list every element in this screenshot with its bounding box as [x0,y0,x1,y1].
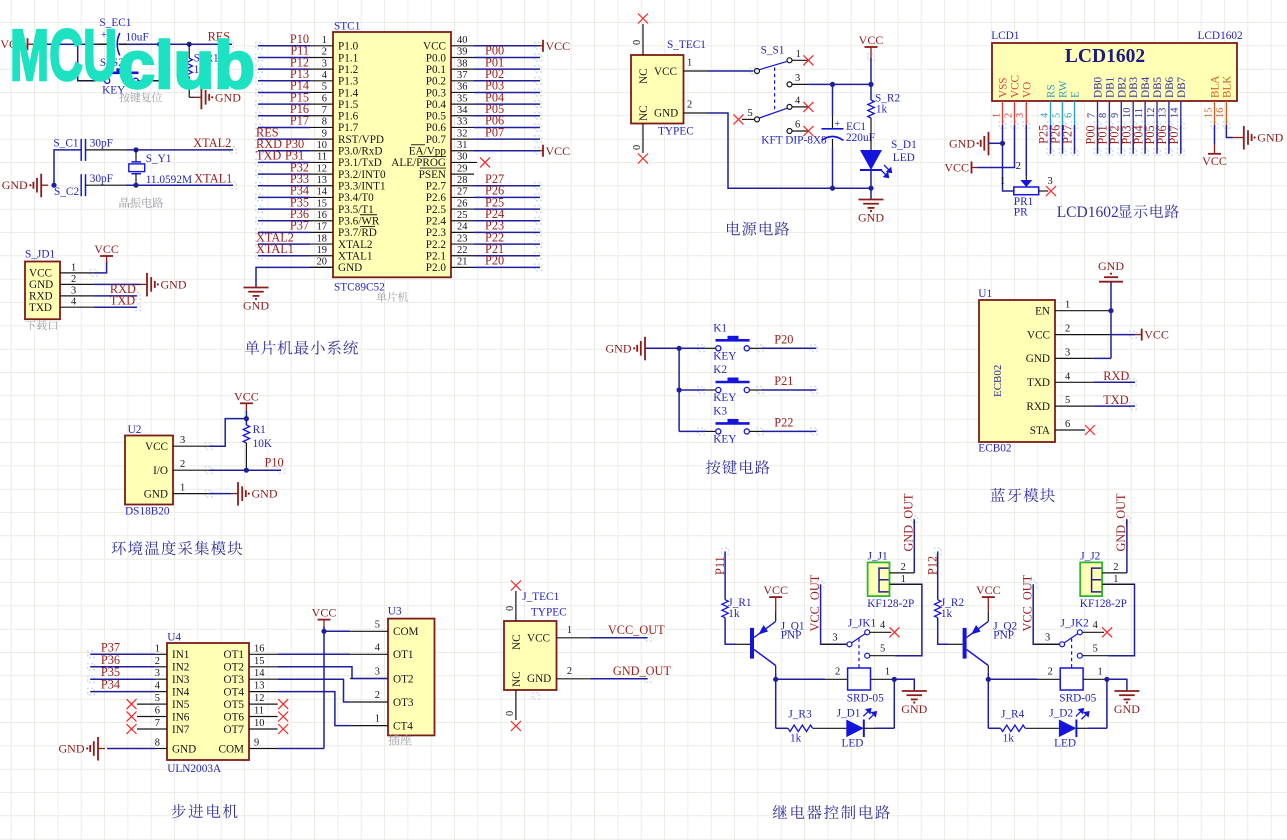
pin 19 STC1 (XTAL1) [310,255,333,257]
pin 13 STC1 (P3.3/INT1) [310,185,333,187]
svg-text:31: 31 [457,140,467,151]
wire [474,243,540,245]
wire [474,150,540,152]
wire P21 [750,389,762,391]
svg-text:J_D1: J_D1 [837,708,861,720]
pin 4 J_JK2 no connect [1082,631,1104,633]
wire P35 [90,678,155,680]
wire [474,56,540,58]
svg-text:VCC: VCC [546,39,571,53]
svg-text:ECB02: ECB02 [978,443,1012,455]
svg-text:30pF: 30pF [90,173,113,185]
svg-text:P1.3: P1.3 [338,76,359,88]
svg-text:DB6: DB6 [1164,76,1176,98]
svg-text:P0.2: P0.2 [426,76,446,88]
svg-text:J_D2: J_D2 [1049,708,1073,720]
svg-text:2: 2 [1048,666,1053,677]
node [892,677,897,682]
svg-text:TYPEC: TYPEC [658,126,694,138]
svg-text:MCU: MCU [10,16,117,96]
svg-text:30pF: 30pF [90,137,113,149]
svg-text:11: 11 [1134,108,1145,118]
svg-text:P0.6: P0.6 [426,122,447,134]
ground (LCD) [989,142,996,144]
pin 27 STC1 (P2.6) [451,196,474,198]
svg-text:P3.6/WR: P3.6/WR [338,216,380,228]
svg-text:VCC: VCC [423,41,446,53]
connector S_JD1 [25,262,60,320]
svg-text:29: 29 [457,163,467,174]
wire [258,231,310,233]
svg-text:LCD1602: LCD1602 [1198,30,1244,42]
svg-text:7: 7 [155,718,160,729]
svg-text:13: 13 [254,681,264,692]
svg-text:P21: P21 [774,374,793,388]
svg-text:VCC: VCC [1202,154,1227,168]
svg-text:P27: P27 [1061,125,1075,144]
svg-text:16: 16 [317,210,327,221]
caption bluetooth module [991,488,1005,502]
svg-text:GND: GND [243,299,269,313]
pin 22 STC1 (P2.1) [451,255,474,257]
svg-text:0: 0 [505,711,516,716]
svg-text:VCC: VCC [763,583,788,597]
svg-text:3: 3 [180,435,185,446]
connector S_TEC1 TYPEC body [631,55,684,124]
pin 1 J_J1 [890,583,922,585]
svg-text:2: 2 [1065,324,1070,335]
svg-text:PR: PR [1014,207,1028,219]
svg-text:33: 33 [457,117,467,128]
wire vertical [678,348,680,431]
svg-text:GND: GND [606,341,632,355]
pin 23 STC1 (P2.2) [451,243,474,245]
wire [258,185,310,187]
svg-text:40: 40 [457,35,467,46]
svg-text:DB3: DB3 [1128,76,1140,98]
wire [323,626,325,631]
pin 5 J_JK1 [870,655,896,657]
svg-text:VCC: VCC [527,633,550,645]
node [1108,308,1113,313]
wire XTAL1 [126,184,233,186]
wire [988,678,1037,680]
svg-text:P3.7/RD: P3.7/RD [338,227,377,239]
svg-text:GND: GND [1026,353,1050,365]
svg-text:10: 10 [317,140,327,151]
wire [808,83,871,85]
ground (ULN2003A) [107,748,155,750]
pushbutton K3 [679,430,705,432]
svg-text:OT3: OT3 [223,674,244,686]
svg-text:1: 1 [687,58,692,69]
wire [137,44,159,81]
svg-text:STA: STA [1030,425,1050,437]
ground (bluetooth) [1099,281,1123,283]
svg-text:SRD-05: SRD-05 [847,693,884,705]
svg-text:8: 8 [322,117,327,128]
svg-text:VCC: VCC [859,33,884,47]
svg-text:NC: NC [511,671,523,687]
pin 24 STC1 (P2.3) [451,231,474,233]
svg-text:37: 37 [457,70,467,81]
svg-text:RXD: RXD [1103,369,1129,383]
pushbutton K1 [679,347,705,349]
svg-text:GND: GND [144,488,168,500]
wire [245,411,247,419]
wire [474,196,540,198]
svg-text:KEY: KEY [713,350,736,362]
svg-text:3: 3 [832,633,837,644]
svg-text:2: 2 [835,666,840,677]
capacitor S_C1 [80,139,82,161]
resistor S_R2 1k [870,84,872,100]
svg-text:39: 39 [457,47,467,58]
svg-text:ALE/PROG: ALE/PROG [391,157,446,169]
svg-text:IN5: IN5 [172,699,190,711]
svg-text:2: 2 [322,47,327,58]
svg-text:TXD: TXD [29,302,52,314]
svg-text:P2.3: P2.3 [426,227,447,239]
svg-text:10: 10 [1122,108,1133,118]
wire OT4 [278,692,351,726]
svg-text:VCC: VCC [145,441,168,453]
wire [474,266,540,268]
svg-text:3: 3 [1015,113,1026,118]
power port VCC (bluetooth) [1135,334,1142,336]
pin 2 S_TEC1 (GND) [684,112,708,114]
caption crystal circuit (gray) [120,198,130,208]
svg-text:LED: LED [842,738,864,750]
ground (STC1) [244,287,269,289]
wire [890,584,922,655]
svg-text:GND: GND [338,262,362,274]
svg-text:DB4: DB4 [1140,76,1152,98]
pin 0 top J_TEC1 [515,591,517,621]
svg-text:P0.0: P0.0 [426,52,447,64]
transistor J_Q1 PNP [775,611,777,622]
svg-text:XTAL1: XTAL1 [338,251,373,263]
no connect OT6 [278,712,288,722]
svg-text:P1.6: P1.6 [338,111,359,123]
svg-text:BLA: BLA [1210,76,1222,98]
svg-text:NC: NC [638,68,650,84]
IC U1 ECB02 body [979,300,1055,442]
svg-text:1: 1 [180,483,185,494]
svg-text:XTAL2: XTAL2 [193,136,231,150]
svg-text:3: 3 [1048,176,1053,187]
wire [78,44,105,81]
svg-text:U1: U1 [978,288,992,300]
wire [258,208,310,210]
ground (crystal) [41,184,48,186]
diode J_D1 LED [846,720,864,738]
svg-text:J_JK1: J_JK1 [848,618,876,630]
svg-text:K3: K3 [713,406,727,418]
svg-text:KF128-2P: KF128-2P [867,598,914,610]
wire P12 [937,551,939,599]
capacitor EC1 220uF [832,84,834,115]
wire [1144,125,1146,154]
IC STC1 STC89C52 body [333,32,451,277]
wire [474,220,540,222]
svg-text:DB2: DB2 [1116,77,1128,98]
wire [209,419,247,447]
pin 2 J_TEC1 GND_OUT [557,678,591,680]
svg-text:STC89C52: STC89C52 [334,282,385,294]
wire [1168,125,1170,154]
svg-text:P22: P22 [774,415,793,429]
no connect IN5 [137,703,155,705]
svg-text:TXD: TXD [110,294,135,308]
svg-text:S_JD1: S_JD1 [25,249,55,261]
svg-text:OT2: OT2 [223,662,244,674]
svg-text:4: 4 [1065,371,1071,382]
wire [258,103,310,105]
svg-text:21: 21 [457,257,467,268]
IC LCD1 LCD1602 body [992,43,1237,101]
svg-text:3: 3 [71,285,76,296]
svg-text:7: 7 [322,105,327,116]
svg-text:RST/VPD: RST/VPD [338,134,384,146]
wire [1110,282,1112,359]
wire [1050,125,1052,154]
pin 0 top S_TEC1 [642,24,644,55]
svg-text:RW: RW [1058,80,1070,98]
svg-text:OT6: OT6 [223,711,244,723]
svg-text:IN1: IN1 [172,649,189,661]
power port VCC (pin31) [540,150,543,152]
wire [1088,727,1107,729]
svg-text:LCD1602: LCD1602 [1065,46,1145,67]
wire [258,173,310,175]
resistor J_R4 1k [1001,725,1026,731]
wire [258,56,310,58]
svg-text:P0.4: P0.4 [426,99,447,111]
wire TXD [1093,405,1135,407]
svg-text:1: 1 [1065,300,1070,311]
svg-text:26: 26 [457,198,467,209]
pin 9 STC1 (RST/VPD) [310,138,333,140]
node [773,677,778,682]
wire [258,126,310,128]
svg-text:GND: GND [901,702,927,716]
ground (S_JD1) [94,283,140,285]
svg-text:TXD: TXD [1027,377,1050,389]
svg-text:15: 15 [317,198,327,209]
pin 2 J_J2 [1102,572,1127,574]
svg-text:VCC: VCC [1144,328,1169,342]
pin 10 STC1 (P3.0/RxD) [310,150,333,152]
svg-text:VCC_OUT: VCC_OUT [608,623,665,637]
wire [1102,584,1134,655]
svg-text:25: 25 [457,210,467,221]
pin 7 STC1 (P1.6) [310,115,333,117]
wire [474,255,540,257]
wire P37 [90,653,155,655]
node (crystal bottom) [133,183,138,188]
wire [707,113,871,188]
node RES junction [157,42,162,47]
diode J_D2 LED [1059,720,1077,738]
svg-text:9: 9 [1110,113,1121,118]
svg-text:4: 4 [322,70,328,81]
svg-text:DB5: DB5 [1152,76,1164,98]
svg-text:XTAL2: XTAL2 [338,239,373,251]
svg-text:STC1: STC1 [334,21,360,33]
pin 36 STC1 (P0.3) [451,91,474,93]
wire [1180,125,1182,154]
svg-text:U4: U4 [167,632,181,644]
svg-text:OT7: OT7 [223,724,244,736]
svg-text:5: 5 [375,619,380,630]
svg-text:1: 1 [901,574,906,585]
svg-text:12: 12 [317,163,327,174]
svg-text:0: 0 [632,145,643,150]
svg-text:28: 28 [457,175,467,186]
svg-text:6: 6 [322,93,327,104]
svg-text:J_R3: J_R3 [788,709,812,721]
svg-text:14: 14 [317,187,328,198]
pin 32 STC1 (P0.7) [451,138,474,140]
svg-text:VCC: VCC [654,66,677,78]
wire [258,243,310,245]
svg-text:GND_OUT: GND_OUT [613,664,672,678]
svg-text:P1.4: P1.4 [338,87,359,99]
svg-text:38: 38 [457,58,467,69]
svg-text:22: 22 [457,245,467,256]
relay coil SRD-05 (2) [1038,678,1061,680]
wire P20 [750,347,762,349]
node [986,677,991,682]
svg-text:PSEN: PSEN [419,169,446,181]
svg-text:S_C2: S_C2 [54,186,79,198]
wire [258,115,310,117]
svg-text:KEY: KEY [713,433,736,445]
wire [1108,125,1110,154]
svg-text:NC: NC [511,634,523,650]
svg-text:P3.0/RxD: P3.0/RxD [338,146,382,158]
svg-text:IN6: IN6 [172,711,190,723]
wire [474,80,540,82]
node [244,468,249,473]
svg-text:VCC: VCC [546,144,571,158]
svg-text:10: 10 [254,718,264,729]
wire [725,618,736,645]
wire [870,58,872,84]
pin 33 STC1 (P0.6) [451,126,474,128]
svg-text:DS18B20: DS18B20 [125,506,170,518]
svg-text:club: club [118,28,255,103]
svg-text:16: 16 [1215,108,1226,118]
svg-text:3: 3 [795,73,800,84]
no connect pin30 [480,157,490,167]
wire [258,255,310,257]
wire P36 [90,666,155,668]
wire [474,103,540,105]
svg-text:I/O: I/O [153,465,168,477]
svg-text:10K: 10K [253,438,273,450]
svg-text:0: 0 [505,606,516,611]
svg-text:S_C1: S_C1 [53,137,78,149]
pin 3 PR1 no connect [1039,190,1049,192]
svg-text:TXD: TXD [256,149,281,163]
wire COM [324,630,350,632]
svg-text:GND: GND [1257,131,1283,145]
svg-text:P3.2/INT0: P3.2/INT0 [338,169,386,181]
wire BLA [1214,125,1216,144]
svg-text:P1.7: P1.7 [338,122,359,134]
svg-text:24: 24 [457,222,468,233]
svg-text:NC: NC [638,105,650,121]
wire VO to PR1 wiper [1025,125,1027,176]
caption temperature module [112,541,126,555]
ground (backlight) [1233,137,1238,139]
pin 1 STC1 (P1.0) [310,45,333,47]
wire [258,161,310,163]
svg-text:J_JK2: J_JK2 [1061,618,1090,630]
resistor J_R2 1k [935,600,941,618]
wire [127,43,232,45]
svg-text:P31: P31 [285,149,304,163]
ground (reset) [189,96,194,98]
power port VCC (pin40) [540,45,543,47]
wire P11 [724,551,726,599]
svg-text:0: 0 [632,40,643,45]
pin 29 STC1 (PSEN) [451,173,474,175]
svg-text:VCC: VCC [976,583,1001,597]
svg-text:2: 2 [180,459,185,470]
wire GND pin20 [310,266,333,268]
pin 38 STC1 (P0.1) [451,68,474,70]
wire [1132,125,1134,154]
svg-text:12: 12 [254,693,264,704]
pin 15 STC1 (P3.5/T1) [310,208,333,210]
wire [474,91,540,93]
power port VCC (backlight) [1208,153,1221,155]
crystal S_Y1 [135,150,137,162]
resistor J_R3 1k [788,725,813,731]
svg-text:P20: P20 [774,332,793,346]
svg-text:DB0: DB0 [1093,76,1105,98]
wire OT1 [278,653,351,655]
svg-text:ECB02: ECB02 [992,365,1004,397]
svg-text:P2.5: P2.5 [426,204,447,216]
caption power circuit [727,222,740,236]
svg-text:1: 1 [567,625,572,636]
pin 3 STC1 (P1.2) [310,68,333,70]
svg-text:5: 5 [1065,395,1070,406]
caption key circuit [706,460,721,474]
ground (power circuit) [870,188,872,199]
wire [54,150,81,185]
capacitor S_C2 [80,174,82,196]
svg-text:RS: RS [1046,84,1058,98]
svg-text:P07: P07 [1167,125,1181,144]
svg-text:1: 1 [1113,574,1118,585]
caption MCU minimal system [245,341,260,355]
node [830,82,835,87]
wire [1062,125,1064,154]
wire [1097,125,1099,154]
wire [258,150,310,152]
wire [775,673,777,679]
svg-text:9: 9 [322,128,327,139]
wire [987,673,989,679]
pin 40 STC1 (VCC) [451,45,474,47]
pin 5 J_JK2 [1082,655,1108,657]
wire [258,45,310,47]
